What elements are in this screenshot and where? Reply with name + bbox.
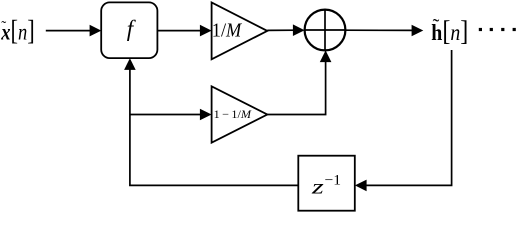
- svg-text:z: z: [311, 175, 324, 199]
- arrowhead into delay (right side): [355, 180, 367, 192]
- svg-text:˜: ˜: [1, 19, 6, 35]
- arrowhead into adder (left): [293, 24, 305, 36]
- wire delay to left riser and up into f: [130, 68, 298, 185]
- wire gain 1-1/M up into adder: [267, 60, 325, 115]
- arrowhead into gain 1/M: [200, 25, 212, 37]
- arrowhead into gain 1-1/M: [200, 109, 212, 121]
- wire 1/M to adder: [267, 29, 295, 31]
- svg-text:1/M: 1/M: [212, 19, 243, 42]
- wire f to gain 1/M: [157, 30, 202, 32]
- svg-text:1 − 1/M: 1 − 1/M: [214, 109, 253, 121]
- arrowhead at output label: [412, 25, 424, 37]
- label 1/M: [212, 19, 243, 42]
- block f (rounded box): [101, 2, 157, 58]
- arrowhead up into adder bottom: [320, 50, 332, 62]
- adder (summing junction circle with plus): [305, 10, 346, 51]
- wire output down to delay (right riser): [364, 50, 452, 185]
- svg-text:−1: −1: [325, 173, 342, 189]
- adder plus horizontal: [305, 29, 346, 31]
- svg-text:˜: ˜: [433, 15, 440, 37]
- wire branch junction to gain 1-1/M: [130, 114, 202, 116]
- ellipsis dots: [479, 28, 482, 31]
- gain block 1-1/M (triangle): [212, 86, 268, 142]
- wire adder to output: [345, 29, 414, 31]
- wire input to f: [46, 30, 92, 32]
- arrowhead into f box: [90, 25, 102, 37]
- adder plus vertical: [324, 10, 326, 51]
- delay block z^-1: [298, 156, 355, 211]
- arrowhead up into f bottom: [124, 58, 136, 70]
- gain block 1/M (triangle): [212, 3, 268, 60]
